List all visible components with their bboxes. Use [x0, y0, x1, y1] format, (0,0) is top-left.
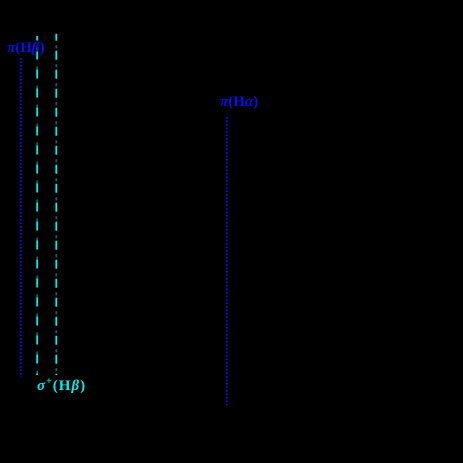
wire: pi(H-beta) marker line, blue dotted vertical [20, 58, 22, 377]
wire: sigma+(H-beta) marker line 2, cyan dashed vertical [55, 34, 57, 375]
node pi(H-alpha) label [220, 95, 258, 110]
wire: sigma+(H-beta) marker line 1, cyan dashed vertical [36, 36, 38, 375]
node sigma+(H-beta) label [37, 377, 86, 394]
wire: sigma+(H-beta) marker line 1, faint teal dots [36, 36, 38, 375]
node pi(H-beta) label [7, 41, 45, 56]
wire: pi(H-alpha) marker line, blue dotted vertical [226, 117, 228, 405]
wire: sigma+(H-beta) marker line 2, faint teal dots [55, 34, 57, 375]
